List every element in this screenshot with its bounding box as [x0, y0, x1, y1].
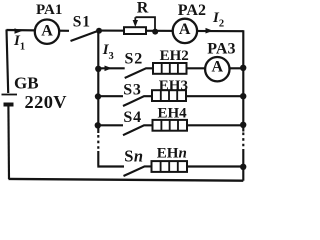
svg-text:R: R — [137, 0, 149, 17]
svg-text:220V: 220V — [25, 92, 68, 112]
svg-text:A: A — [212, 58, 224, 75]
svg-text:Sn: Sn — [124, 147, 143, 166]
svg-text:EH2: EH2 — [160, 48, 189, 64]
svg-text:EHn: EHn — [157, 145, 187, 161]
svg-text:PA1: PA1 — [36, 2, 62, 18]
svg-text:EH3: EH3 — [159, 78, 188, 94]
svg-text:I2: I2 — [212, 10, 224, 30]
svg-text:S4: S4 — [123, 109, 141, 126]
svg-text:I3: I3 — [102, 42, 114, 62]
svg-text:PA3: PA3 — [207, 41, 235, 58]
svg-text:I1: I1 — [13, 33, 25, 53]
svg-text:A: A — [179, 21, 191, 38]
svg-text:GB: GB — [14, 74, 39, 93]
svg-text:S1: S1 — [73, 13, 91, 30]
svg-text:PA2: PA2 — [178, 2, 206, 19]
svg-text:A: A — [41, 22, 53, 39]
svg-text:EH4: EH4 — [158, 106, 188, 122]
svg-text:S3: S3 — [123, 82, 142, 99]
svg-text:S2: S2 — [125, 51, 144, 68]
